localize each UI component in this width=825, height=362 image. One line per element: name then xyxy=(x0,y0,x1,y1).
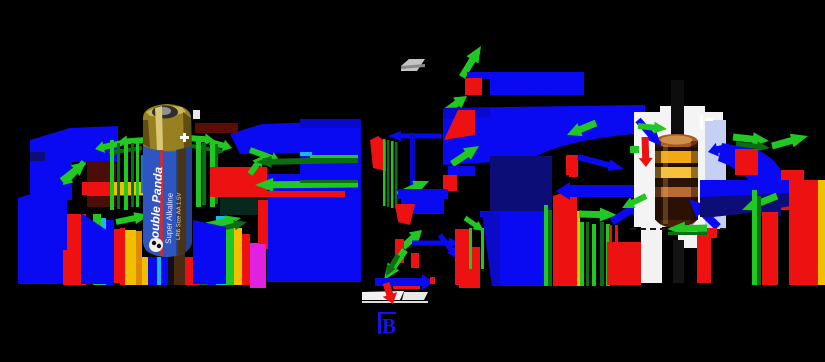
green vertical stripes left of battery xyxy=(110,140,114,210)
drift bar d5 xyxy=(398,189,448,199)
blue diagonal under arc xyxy=(577,154,624,171)
force arrow F1 (red block) xyxy=(465,78,482,95)
green arrow on bottom-right arc xyxy=(742,193,778,210)
drift bar d4 with left tip xyxy=(388,131,441,141)
green vertical bars right xyxy=(752,190,757,285)
drift bar d1 (blue, L-shaped band, points left) xyxy=(467,72,584,95)
giant blue arrow: bright lower face xyxy=(482,213,545,286)
big red bar far right edge xyxy=(789,180,818,285)
green electron arrow pointing left, lower xyxy=(255,178,358,192)
blue current arrow into resistor top-left xyxy=(635,118,661,146)
thin blue bar over navy base xyxy=(480,211,544,217)
white photo backdrop of resistor xyxy=(634,112,723,227)
green scattering hatch band xyxy=(383,139,386,206)
red E-field bar with down head xyxy=(553,192,577,202)
yellow bar at right edge xyxy=(818,180,825,285)
dashed guide line under resistor xyxy=(630,228,727,230)
cyan line on blue block xyxy=(300,152,312,156)
magenta surface-charge bar xyxy=(250,244,266,288)
pale blue tint on backdrop right xyxy=(705,120,726,229)
green thin verticals bottom middle xyxy=(469,228,472,269)
red bar group near bottom of electron path xyxy=(395,239,404,263)
green electron arrow pointing left, upper xyxy=(256,156,358,168)
blue arrow into resistor right side xyxy=(708,143,730,157)
thin blue vertical connector xyxy=(410,133,415,203)
front stripe band of battery loop (drift arrows pointing down) xyxy=(63,250,67,285)
red E arrow pointing down bottom xyxy=(383,282,397,304)
dark teal region under red block xyxy=(220,197,267,215)
blue arc top-right of resistor loop xyxy=(718,143,783,192)
wire into resistor top xyxy=(671,80,684,135)
wire: big blue current arrow at far left of battery loop xyxy=(18,145,67,284)
blue arc bottom-right of resistor loop xyxy=(700,180,795,217)
green drift arrow bottom-left pointing right xyxy=(115,212,150,225)
giant blue arrow: navy side face xyxy=(490,156,552,214)
velocity v7 green pointing down-left xyxy=(384,248,408,280)
white sliver right of battery cap xyxy=(193,110,200,119)
blue drift arrow bottom pointing right xyxy=(375,274,434,290)
maroon block left xyxy=(87,161,116,207)
wire: blue band top-left of battery loop xyxy=(30,126,118,200)
wire below resistor xyxy=(673,240,684,283)
tiny green arrow left edge of backdrop xyxy=(630,146,639,153)
yellow band xyxy=(112,182,147,195)
dark maroon band right of battery cap xyxy=(195,123,238,133)
red bar right of lower white column xyxy=(697,225,711,283)
white column below-left of resistor xyxy=(641,227,662,283)
red E bar on left arc xyxy=(566,155,577,175)
green arrow at resistor top xyxy=(638,122,667,134)
red E arrow left of resistor xyxy=(639,137,653,167)
red band behind battery left xyxy=(87,182,149,196)
electron velocity arrow v1 (green) xyxy=(459,46,481,79)
big red force arrow F2 over ribbon xyxy=(444,110,475,140)
red horizontal stripe on blue block xyxy=(258,191,345,197)
red force bar F4 xyxy=(443,175,457,191)
red E arrow down on left arc of resistor loop xyxy=(569,155,578,177)
electron velocity arrow v2 (green) xyxy=(443,96,467,115)
blue arrow out of resistor bottom-right xyxy=(689,199,721,230)
green arrows top-right arc xyxy=(733,132,769,146)
green scattering stripes under green arrow xyxy=(580,222,584,286)
green arrow under resistor pointing left xyxy=(667,222,707,236)
node: green electron flow arrows on top arc of battery loop xyxy=(118,135,146,147)
svg-text:B: B xyxy=(382,314,396,338)
green arc arrow left side over blue xyxy=(63,160,86,185)
red E bar on right arc xyxy=(735,149,758,175)
green stripe pair left of red bar xyxy=(544,205,548,286)
green drift arrow bottom-centre-right pointing right xyxy=(193,215,241,231)
svg-text:LR6 Size AA 1.5V: LR6 Size AA 1.5V xyxy=(176,193,183,240)
red E bar far right arc xyxy=(781,170,804,210)
red bar left of green stripes bottom xyxy=(553,233,566,286)
yellow stripe xyxy=(577,211,580,286)
green velocity arrow pointing right xyxy=(579,208,617,222)
green chevron on right arc xyxy=(249,147,280,163)
green velocity arrows top-left arc of resistor loop xyxy=(567,120,597,136)
green arrow on right arc going down xyxy=(747,183,772,206)
plate: gray cross-section parallelogram xyxy=(401,59,425,71)
blue arc bottom-right of battery loop xyxy=(193,220,226,284)
red bar left of lower white column xyxy=(630,242,641,283)
green SE arrow above them xyxy=(464,216,484,231)
wire: giant blue current arrow between battery loop and wire segment xyxy=(267,119,361,282)
cyan sliver at battery left edge xyxy=(141,155,144,193)
red E-field bar over blue block xyxy=(258,200,268,249)
velocity v6 green xyxy=(401,230,422,250)
blue NE arrow toward resistor bottom xyxy=(610,201,644,225)
green vertical stripes right of battery xyxy=(196,140,201,207)
red force F5 xyxy=(395,204,415,225)
svg-text:Super Alkaline: Super Alkaline xyxy=(164,192,175,244)
velocity v3 green xyxy=(450,146,479,167)
small red bar right of bottom blue arrow xyxy=(430,277,435,284)
node label B (blue) xyxy=(378,312,396,334)
blue diagonal d7 xyxy=(438,234,459,261)
green velocity arc right rim xyxy=(248,156,263,176)
wire: giant blue ribbon arrow top face xyxy=(443,105,645,165)
velocity v5 green xyxy=(397,181,429,198)
wire: blue arc top-right of battery loop xyxy=(230,121,361,154)
red blob below xyxy=(607,242,641,285)
green arrow left of resistor bottom xyxy=(622,193,647,208)
blue drift arc bottom-left xyxy=(81,213,114,284)
red bar right of green bars xyxy=(762,212,778,285)
green velocity arc left rim xyxy=(60,162,86,184)
white cross-section plates row xyxy=(362,291,404,300)
small red bar at backdrop bottom-right xyxy=(707,228,717,238)
drift bar d3 xyxy=(448,166,475,176)
red flag arrow F3 xyxy=(370,136,386,171)
white tick glyphs top-right of backdrop xyxy=(700,115,703,129)
blue band toward resistor (points left) xyxy=(556,182,641,200)
resistor R1: carbon composition resistor photo xyxy=(655,134,698,228)
battery B1: AA cell photo xyxy=(143,104,192,257)
white chunk below-right xyxy=(678,231,708,248)
drift bar d6 points right xyxy=(412,238,459,249)
red column in front band xyxy=(114,229,124,283)
red block right of battery xyxy=(210,167,267,197)
